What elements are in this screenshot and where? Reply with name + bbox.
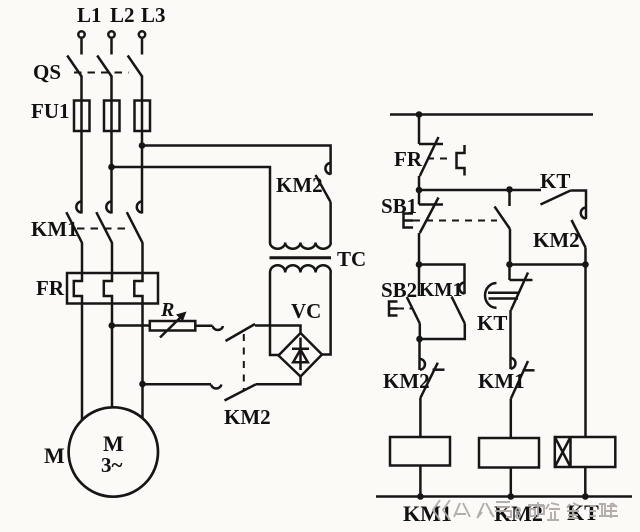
svg-text:FU1: FU1 <box>31 99 70 123</box>
pushbutton SB2 blade <box>407 297 420 324</box>
node tap on phase3 for braking return <box>139 381 146 388</box>
wire coil KT to rail <box>584 467 587 497</box>
disconnect switch QS pole 3 blade <box>128 56 143 78</box>
wire parallel bottom <box>419 324 465 340</box>
wire KM2 aux upper to bridge + corner down to VC plus <box>255 326 301 334</box>
svg-text:SB2: SB2 <box>381 278 417 302</box>
control rail top <box>390 113 593 116</box>
fuse FU1 pole3 <box>135 101 151 132</box>
fuse FU1 pole2 <box>104 101 120 132</box>
relay contact FR (NC) blade <box>420 137 439 176</box>
relay contact FR (NC) bar <box>419 143 443 146</box>
svg-text:L3: L3 <box>141 3 166 27</box>
svg-text:L2: L2 <box>110 3 135 27</box>
wire fuse2 to KM1 contact <box>110 131 113 214</box>
pushbutton SB1 NO stub <box>508 190 511 207</box>
svg-text:KT: KT <box>567 500 599 525</box>
SB1 link dashed <box>413 220 497 222</box>
wire FR pole3 to motor <box>141 304 144 420</box>
node junction on L3 feed to KM2 branch <box>139 142 146 149</box>
node junction on L2 feed to TC branch <box>108 164 115 171</box>
KT delay symbol lines <box>488 293 518 299</box>
wire TC secondary right to VC <box>322 273 331 355</box>
wire rail to FR contact <box>418 115 421 145</box>
FR thermal actuator symbol <box>457 145 465 176</box>
svg-text:KM1: KM1 <box>31 217 78 241</box>
wire KM2 main to TC primary right <box>329 202 332 243</box>
svg-text:QS: QS <box>33 60 61 84</box>
FR heater element pole1 <box>74 273 82 304</box>
transformer TC core bar <box>270 256 332 259</box>
rectifier VC bridge diamond <box>279 333 323 377</box>
wire coil KM2 to rail <box>510 468 513 497</box>
contactor KM1 aux NO hook <box>459 283 464 294</box>
thermal relay FR box <box>67 273 158 304</box>
timer contact KT (NO, top) blade <box>541 191 571 205</box>
fuse FU1 pole1 <box>74 101 90 132</box>
wire SB1 to node <box>418 233 421 265</box>
coil KT (with X box) <box>555 437 616 467</box>
contactor KM2 aux NO (right branch) hook <box>581 208 586 219</box>
wire SB2/KM1 parallel top <box>419 265 465 295</box>
KT delayed NC bar <box>510 279 533 282</box>
transformer TC secondary winding <box>270 265 331 272</box>
svg-text:M: M <box>44 443 65 468</box>
wire KT to corner <box>571 191 587 220</box>
wire QS pole3 to fuse <box>141 77 144 101</box>
wire coil KM1 to rail <box>419 466 422 497</box>
wire KM1 pole1 to FR <box>81 243 84 273</box>
wire FR contact to node <box>418 176 421 190</box>
node L3 terminal <box>139 31 145 37</box>
node rail2 mid <box>506 186 513 193</box>
svg-text:KM1: KM1 <box>478 369 525 393</box>
pushbutton SB1 NO blade <box>495 207 511 230</box>
FR heater element pole3 <box>134 273 142 304</box>
resistor R body <box>150 321 196 331</box>
SB2 link dash <box>398 308 413 310</box>
node below SB2 <box>416 336 423 343</box>
resistor R adjust arrow <box>160 314 184 338</box>
node tap on phase2 for braking resistor <box>109 322 116 329</box>
disconnect switch QS pole 2 blade <box>97 56 112 78</box>
contactor KM2 NC hook <box>420 359 425 370</box>
wire junction L2 to TC primary left <box>112 167 271 243</box>
contactor KM1 main pole3 (hook + blade) <box>127 202 143 244</box>
timer contact KT delayed NC stub <box>508 265 511 281</box>
contactor KM2 NC bar <box>433 368 445 371</box>
wire R to KM2 aux upper contact <box>195 325 212 328</box>
node L1 terminal <box>78 31 84 37</box>
KT delayed NC blade <box>511 273 528 311</box>
contactor KM1 NC hook <box>511 358 516 369</box>
FR link dashed <box>427 158 453 160</box>
coil KM1 <box>390 437 450 466</box>
svg-text:SB1: SB1 <box>381 194 417 218</box>
wire fuse1 to KM1 contact <box>80 131 83 214</box>
wire QS pole2 to fuse <box>110 77 113 101</box>
wire SB1 NO to node <box>509 229 512 265</box>
wire KM1 pole3 to FR <box>141 243 144 273</box>
wire junction L3 to KM2 contact (top horizontal) <box>142 146 331 175</box>
wire L1 to QS <box>80 39 83 55</box>
wire L2 to QS <box>110 39 113 55</box>
KM2 aux mechanical link (dashed) <box>243 334 245 391</box>
watermark <box>433 500 618 520</box>
pushbutton SB1 NC blade <box>420 198 439 234</box>
motor M circle <box>69 407 158 496</box>
wire KM1 pole2 to FR <box>111 243 114 273</box>
KM1 mechanical link (dashed) <box>77 228 129 230</box>
rectifier VC inner diode <box>292 338 309 371</box>
svg-text:KM2: KM2 <box>224 405 271 429</box>
svg-text:KT: KT <box>477 311 507 335</box>
pushbutton SB2 stub <box>418 265 421 297</box>
wire KM2 blade to node <box>584 248 587 265</box>
node bottom rail 2 <box>508 493 515 500</box>
contactor KM2 aux NO blade <box>572 220 586 248</box>
contactor KM2 aux upper contact (hook + blade) <box>213 324 255 341</box>
wire QS pole1 to fuse <box>80 77 83 101</box>
svg-text:R: R <box>160 299 174 321</box>
node row left <box>416 261 423 268</box>
svg-text:KM2: KM2 <box>383 369 430 393</box>
disconnect switch QS pole 1 blade <box>67 56 82 78</box>
svg-text:KM1: KM1 <box>419 280 462 301</box>
wire fuse3 to KM1 contact <box>141 131 144 214</box>
contactor KM1 NC blade <box>511 361 528 398</box>
wire node to KM2 NC <box>418 339 421 370</box>
svg-text:3~: 3~ <box>101 453 123 477</box>
wire KM1 NC to coil KM2 <box>510 398 513 438</box>
wire KM2 NC to coil KM1 <box>419 398 422 438</box>
contactor KM2 aux lower contact (hook + blade) <box>211 385 256 401</box>
wire FR pole2 to motor <box>111 304 114 408</box>
wire KT NC to KM1 NC <box>509 310 512 369</box>
svg-text:KT: KT <box>540 169 570 193</box>
svg-text:KM2: KM2 <box>276 173 323 197</box>
coil KM2 <box>479 438 539 468</box>
svg-text:VC: VC <box>291 299 321 323</box>
pushbutton SB2 actuator E <box>389 302 398 316</box>
svg-text:FR: FR <box>36 276 65 300</box>
wire FR pole1 to motor <box>81 304 84 421</box>
wire KM2 aux lower to VC minus <box>256 377 301 385</box>
KT delay symbol arc <box>485 283 496 308</box>
transformer TC primary winding <box>270 243 331 249</box>
wire TC secondary left to VC <box>270 273 279 356</box>
pushbutton SB1 NC bar <box>419 203 443 206</box>
control rail second <box>419 189 541 192</box>
contactor KM1 main pole1 (hook + blade) <box>66 202 82 244</box>
svg-text:TC: TC <box>337 247 366 271</box>
node bottom rail 1 <box>417 493 424 500</box>
pushbutton SB1 actuator E <box>404 214 414 228</box>
wire right branch to KT coil <box>584 265 587 438</box>
pushbutton SB1 NC top stub <box>418 190 421 205</box>
contactor KM1 main pole2 (hook + blade) <box>96 202 112 244</box>
svg-text:FR: FR <box>394 147 423 171</box>
wire cross link row <box>510 263 586 266</box>
contactor KM2 NC blade <box>421 363 438 398</box>
wire tap to KM2 aux lower contact <box>143 383 212 386</box>
node bottom rail 3 <box>582 493 589 500</box>
contactor KM2 main contact (hook + blade) <box>316 163 331 202</box>
wire L3 to QS <box>141 39 144 55</box>
FR heater element pole2 <box>104 273 112 304</box>
QS mechanical link (dashed) <box>74 72 129 74</box>
svg-text:L1: L1 <box>77 3 102 27</box>
node L2 terminal <box>108 31 114 37</box>
svg-text:KM2: KM2 <box>533 228 580 252</box>
node rail2 left <box>416 187 423 194</box>
contactor KM1 aux NO blade <box>452 297 465 324</box>
node row mid <box>506 261 513 268</box>
control rail bottom <box>376 495 632 498</box>
wire SB2 to node <box>419 324 422 340</box>
node row right <box>582 261 589 268</box>
contactor KM1 NC bar <box>523 369 535 372</box>
wire tap to resistor R <box>112 324 150 327</box>
node control rail junction <box>416 111 423 118</box>
